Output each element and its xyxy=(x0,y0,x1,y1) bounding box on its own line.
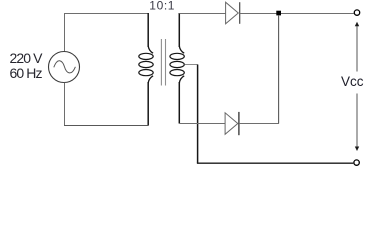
transformer T1 core line right xyxy=(165,39,167,86)
wire D2 cathode to right vertical xyxy=(239,123,279,125)
wire primary lead bottom vertical xyxy=(147,82,149,126)
output terminal bottom (open circle) xyxy=(354,160,359,165)
wire D1 cathode to junction and output terminal xyxy=(240,13,354,15)
AC source V1 circle xyxy=(49,52,80,83)
Vcc arrowhead down xyxy=(355,147,359,152)
AC source V1 sine wave xyxy=(54,61,76,73)
diode D2 triangle xyxy=(225,113,238,135)
wire bottom output horizontal xyxy=(197,162,353,164)
transformer T1 secondary winding bottom hook xyxy=(179,76,184,83)
wire secondary bottom to diode D2 anode xyxy=(179,123,225,125)
wire left vertical lower (source bottom to bottom-left corner) xyxy=(64,83,66,126)
wire bottom-left horizontal xyxy=(64,125,148,127)
wire secondary lead bottom vertical xyxy=(178,82,180,124)
transformer T1 primary winding bottom hook xyxy=(148,76,153,83)
transformer T1 core line left xyxy=(160,39,162,86)
svg-text:10:1: 10:1 xyxy=(149,0,175,13)
wire center tap vertical down xyxy=(197,65,199,164)
Vcc arrowhead up xyxy=(355,22,359,27)
transformer T1 primary winding loop 3 xyxy=(139,70,153,76)
Vcc measurement arrow shaft xyxy=(356,24,358,149)
transformer T1 secondary winding loop 3 xyxy=(170,70,184,76)
wire secondary top to diode D1 anode xyxy=(179,13,225,15)
transformer T1 primary winding loop 1 xyxy=(139,53,153,59)
output terminal top (open circle) xyxy=(354,10,359,15)
transformer T1 secondary winding loop 2 xyxy=(170,61,184,67)
junction node (solid square) xyxy=(276,11,281,16)
wire left vertical upper (top corner down to source top) xyxy=(64,13,66,52)
label source voltage 220 V / 60 Hz xyxy=(10,51,42,80)
wire junction vertical down to D2 cathode xyxy=(278,15,280,124)
diode D1 cathode bar xyxy=(239,2,241,24)
diode D2 cathode bar xyxy=(238,112,240,135)
transformer T1 secondary winding top hook xyxy=(179,46,184,53)
svg-text:Vcc: Vcc xyxy=(341,74,364,89)
wire secondary lead top vertical xyxy=(178,13,180,47)
wire primary lead top vertical xyxy=(147,13,149,47)
Vcc label background xyxy=(341,72,365,94)
transformer T1 primary winding top hook xyxy=(148,46,153,53)
wire center tap horizontal stub xyxy=(185,64,198,66)
transformer T1 secondary winding loop 1 xyxy=(170,53,184,59)
wire top-left horizontal (source to primary) xyxy=(64,13,148,15)
diode D1 triangle xyxy=(226,2,239,24)
transformer T1 primary winding loop 2 xyxy=(139,61,153,67)
